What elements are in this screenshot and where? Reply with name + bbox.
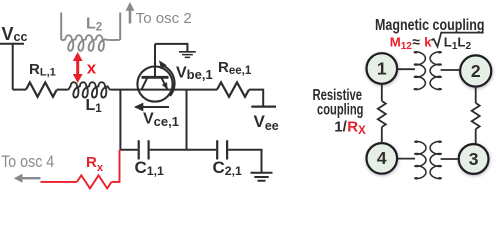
svg-text:x: x [87, 59, 97, 78]
svg-text:coupling: coupling [317, 102, 364, 119]
node circle 2 [460, 55, 491, 86]
node circle 3 [459, 144, 489, 174]
wire Ree to Vee [249, 90, 263, 107]
svg-text:To osc 2: To osc 2 [136, 11, 192, 27]
wire rail RL1 to L1 [57, 89, 68, 91]
coupling coil top right [430, 52, 441, 90]
wire Vcc rail vertical [0, 44, 24, 90]
wire rail left [13, 89, 26, 91]
resistor RL1 [26, 82, 57, 96]
coupling resistor right [472, 103, 480, 129]
node circle 4 [367, 143, 398, 174]
coupling coil bottom left [415, 141, 426, 178]
wire top transformer to c2 [441, 69, 461, 71]
wire emitter to Ree [187, 89, 218, 91]
node circle 1 [367, 53, 398, 84]
arrow to osc 4 (gray) [21, 177, 41, 179]
svg-text:2: 2 [471, 61, 481, 81]
radical sign [431, 33, 483, 47]
transistor base lead [154, 44, 156, 77]
wire emitter junction down [186, 90, 188, 150]
wire to c3 [475, 129, 477, 144]
wire c1 down [381, 84, 383, 101]
wire rail through transistor [138, 89, 187, 91]
svg-text:k: k [424, 35, 432, 50]
transistor Q1 circle [137, 66, 172, 101]
Vbe arc arrow [163, 65, 175, 96]
wire junction down to cap row [119, 90, 121, 150]
wire to c4 [381, 127, 383, 143]
coupling coil bottom right [430, 141, 441, 178]
svg-text:3: 3 [469, 149, 479, 169]
wire base to ground [155, 44, 187, 51]
wire bottom transformer to c3 [441, 158, 459, 160]
wire cap row mid [150, 149, 216, 151]
coupling arrow x (red double arrow) [76, 59, 79, 77]
wire rail L1 to transistor [110, 89, 137, 91]
svg-text:To osc 4: To osc 4 [1, 153, 54, 171]
svg-text:1: 1 [377, 58, 387, 78]
svg-text:≈: ≈ [412, 33, 420, 49]
transistor base bar [142, 76, 169, 79]
ground (base) [179, 52, 196, 58]
wire Rx to osc 4 (red) [41, 181, 78, 183]
svg-text:1/: 1/ [334, 119, 347, 136]
Vce arrow [140, 106, 169, 108]
coupling coil top left [414, 52, 425, 90]
wire Rx riser (red) [112, 150, 120, 182]
capacitor C11 [139, 140, 149, 159]
transistor collector diagonal [142, 77, 148, 89]
resistor Ree1 [217, 82, 249, 96]
wire c1 to top transformer [397, 68, 415, 70]
wire cap row right to ground [228, 150, 261, 173]
wire c2 down [475, 87, 477, 103]
svg-text:Vce,1: Vce,1 [143, 111, 179, 129]
inductor L2 (to osc 2, gray) [61, 13, 120, 41]
inductor L1 [68, 82, 110, 97]
Vee terminal bar [251, 105, 276, 107]
arrow to osc 2 [129, 10, 132, 24]
coupling resistor left [378, 101, 386, 127]
svg-text:4: 4 [377, 148, 387, 168]
capacitor C21 [217, 140, 227, 159]
wire c4 to bottom transformer [397, 158, 415, 160]
wire cap row left [120, 149, 137, 151]
resistor Rx (red) [77, 175, 112, 188]
svg-text:Magnetic coupling: Magnetic coupling [375, 17, 485, 34]
ground (cap row) [251, 173, 273, 181]
svg-text:Vbe,1: Vbe,1 [176, 64, 213, 82]
transistor emitter diagonal with arrow [161, 77, 167, 89]
